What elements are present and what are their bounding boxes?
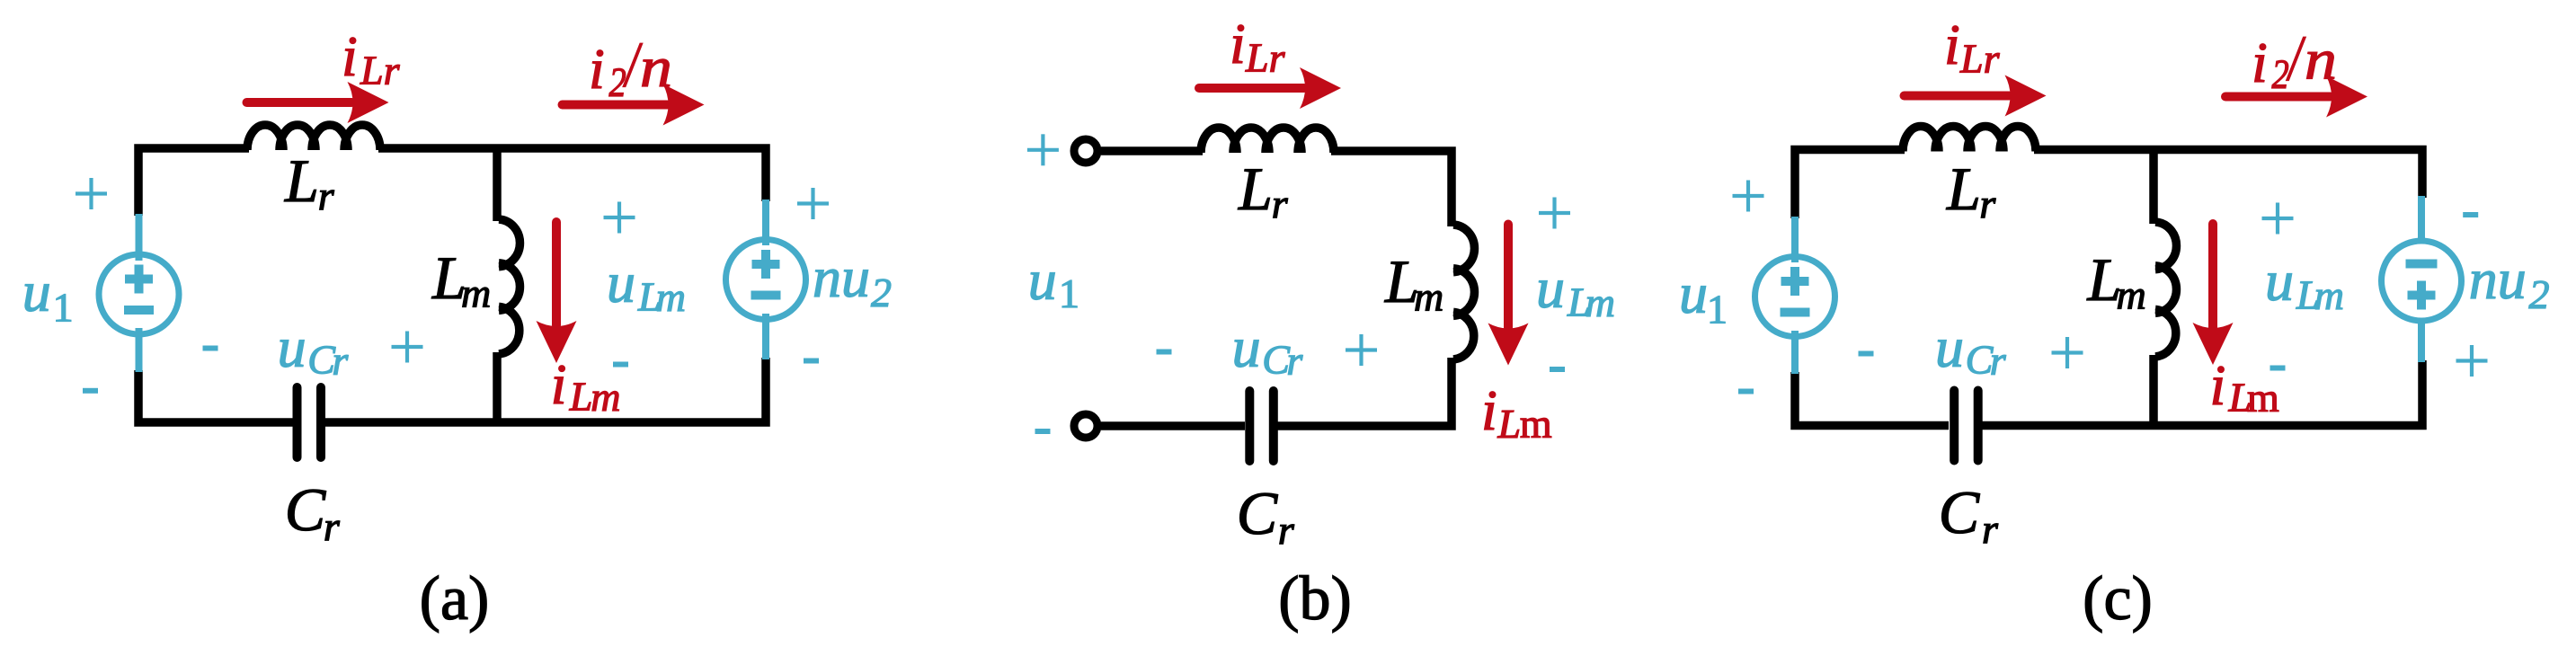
- svg-text:u: u: [2265, 249, 2294, 313]
- svg-text:r: r: [1990, 338, 2007, 384]
- svg-text:(b): (b): [1278, 564, 1352, 634]
- svg-text:u: u: [278, 315, 306, 379]
- svg-text:m: m: [656, 274, 686, 320]
- svg-text:m: m: [1586, 279, 1615, 325]
- svg-text:1: 1: [1707, 287, 1728, 332]
- svg-text:i: i: [2252, 31, 2268, 94]
- svg-text:r: r: [1286, 338, 1303, 384]
- svg-text:i: i: [1944, 13, 1960, 76]
- svg-text:Lr: Lr: [1959, 36, 2001, 82]
- svg-text:m: m: [461, 270, 491, 316]
- svg-text:r: r: [1272, 181, 1289, 226]
- svg-text:2: 2: [2529, 271, 2550, 317]
- svg-text:u: u: [607, 251, 635, 315]
- svg-text:2: 2: [609, 60, 626, 106]
- svg-text:m: m: [2117, 272, 2146, 318]
- svg-text:nu: nu: [2469, 247, 2527, 311]
- svg-text:C: C: [285, 475, 326, 544]
- svg-text:1: 1: [1059, 270, 1079, 316]
- svg-text:C: C: [1237, 479, 1278, 547]
- svg-text:L: L: [1238, 155, 1273, 223]
- svg-text:r: r: [1979, 181, 1996, 226]
- svg-text:u: u: [1679, 261, 1708, 325]
- svg-text:(a): (a): [420, 564, 490, 634]
- svg-text:r: r: [1278, 507, 1295, 553]
- svg-text:i: i: [589, 37, 605, 101]
- svg-text:u: u: [1935, 315, 1964, 379]
- svg-text:L: L: [569, 374, 593, 420]
- svg-text:u: u: [22, 260, 51, 323]
- svg-text:(c): (c): [2083, 564, 2153, 634]
- svg-text:Lr: Lr: [1245, 35, 1286, 81]
- svg-text:m: m: [591, 374, 620, 420]
- svg-text:1: 1: [53, 285, 74, 331]
- svg-text:i: i: [2210, 353, 2226, 417]
- svg-text:m: m: [1520, 401, 1552, 447]
- svg-text:m: m: [2314, 272, 2344, 318]
- svg-text:u: u: [1232, 315, 1261, 379]
- svg-text:2: 2: [2272, 52, 2289, 98]
- svg-text:L: L: [284, 146, 319, 215]
- svg-text:r: r: [324, 503, 341, 549]
- svg-text:Lr: Lr: [360, 48, 401, 93]
- svg-text:i: i: [1230, 12, 1246, 75]
- svg-text:m: m: [1414, 274, 1443, 320]
- svg-text:2: 2: [871, 270, 892, 315]
- svg-text:i: i: [1481, 378, 1497, 442]
- svg-text:n: n: [640, 35, 672, 100]
- svg-text:m: m: [2247, 375, 2279, 421]
- svg-text:L: L: [1497, 401, 1522, 447]
- svg-text:i: i: [342, 24, 358, 88]
- svg-text:/: /: [2286, 22, 2305, 94]
- svg-text:L: L: [1946, 155, 1981, 223]
- svg-text:r: r: [1982, 506, 1999, 552]
- svg-text:u: u: [1536, 256, 1565, 320]
- svg-text:n: n: [2305, 27, 2337, 92]
- svg-text:C: C: [1939, 478, 1980, 546]
- svg-text:r: r: [318, 173, 335, 218]
- svg-text:u: u: [1028, 248, 1057, 312]
- svg-text:i: i: [551, 352, 567, 416]
- svg-text:nu: nu: [813, 245, 870, 309]
- svg-text:r: r: [332, 338, 349, 384]
